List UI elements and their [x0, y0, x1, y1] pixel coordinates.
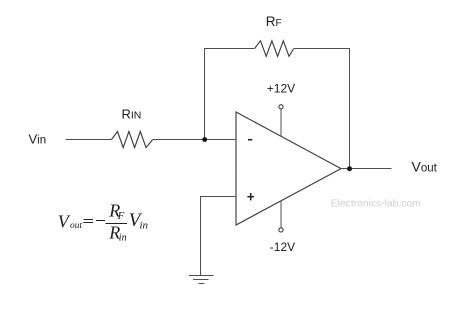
svg-text:RIN: RIN [122, 107, 142, 122]
svg-text:V: V [58, 212, 71, 232]
svg-text:Electronics-lab.com: Electronics-lab.com [331, 199, 421, 210]
svg-text:Vout: Vout [412, 159, 438, 175]
svg-text:in: in [119, 233, 127, 244]
svg-text:Vin: Vin [29, 132, 47, 147]
svg-text:F: F [117, 210, 125, 222]
svg-text:in: in [140, 219, 149, 231]
svg-text:+12V: +12V [267, 82, 295, 96]
svg-text:RF: RF [266, 14, 282, 29]
svg-text:out: out [70, 221, 83, 231]
svg-text:-12V: -12V [270, 240, 295, 254]
